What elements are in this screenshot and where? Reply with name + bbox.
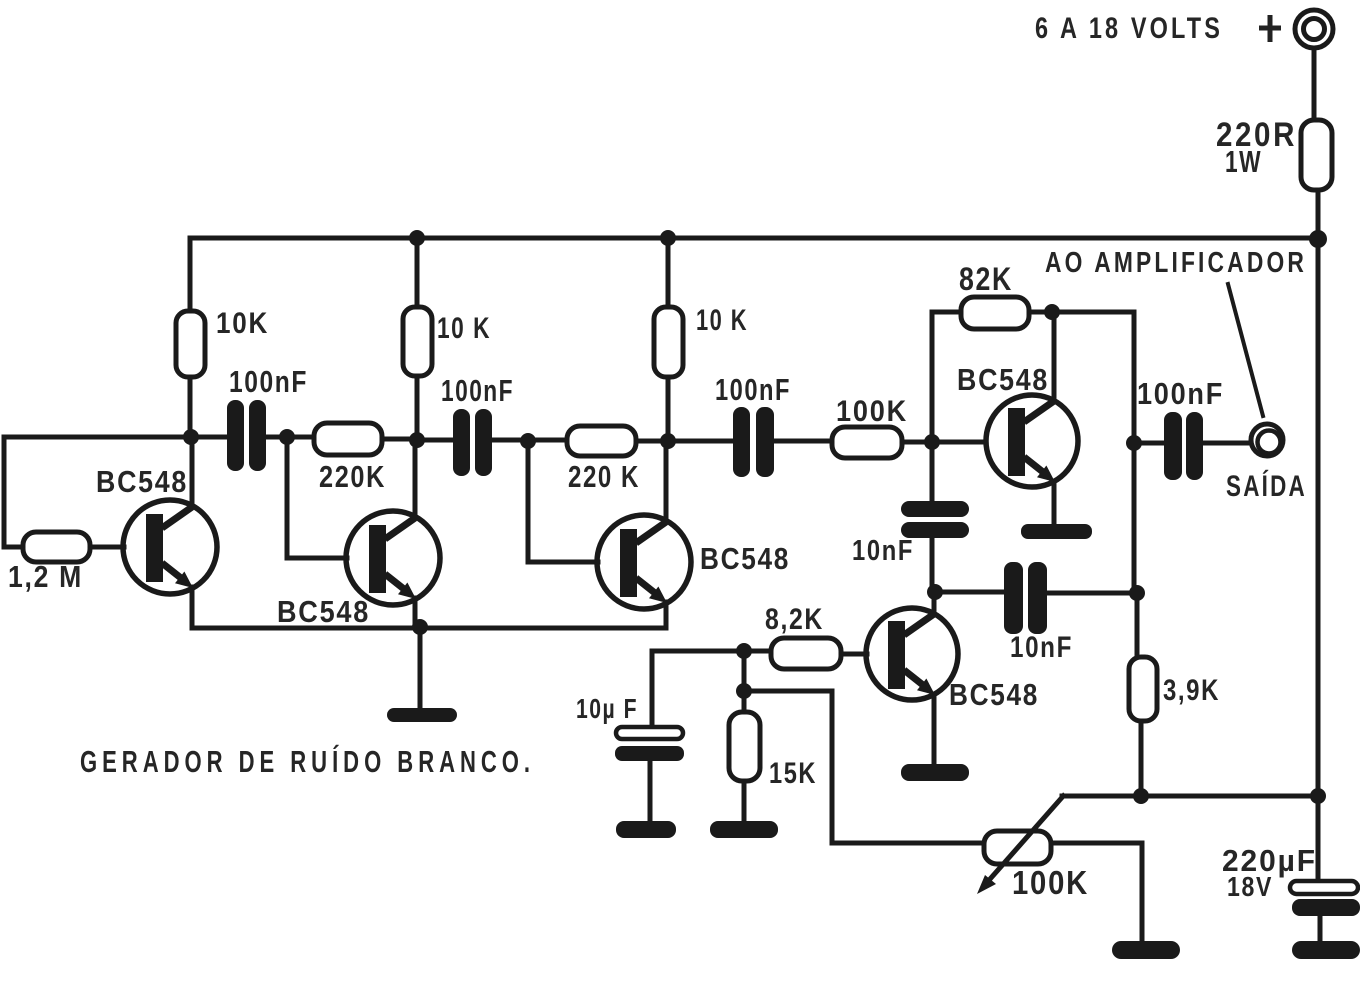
svg-text:BC548: BC548: [96, 464, 188, 499]
svg-text:GERADOR DE RUÍDO BRANCO.: GERADOR DE RUÍDO BRANCO.: [80, 744, 535, 779]
svg-text:10nF: 10nF: [852, 535, 914, 567]
svg-text:100K: 100K: [1012, 864, 1089, 901]
svg-text:100nF: 100nF: [1137, 376, 1224, 411]
svg-text:18V: 18V: [1227, 871, 1273, 902]
svg-text:BC548: BC548: [957, 362, 1049, 397]
svg-text:3,9K: 3,9K: [1163, 674, 1220, 707]
svg-text:100nF: 100nF: [715, 372, 791, 407]
svg-text:100nF: 100nF: [441, 373, 514, 408]
svg-text:100K: 100K: [836, 395, 908, 428]
svg-text:10µ F: 10µ F: [576, 693, 638, 724]
svg-text:SAÍDA: SAÍDA: [1226, 469, 1307, 503]
svg-text:1W: 1W: [1225, 144, 1262, 179]
svg-text:15K: 15K: [769, 757, 817, 790]
svg-text:220K: 220K: [319, 459, 386, 494]
svg-text:100nF: 100nF: [229, 364, 308, 399]
svg-text:10 K: 10 K: [437, 312, 491, 345]
svg-text:BC548: BC548: [277, 594, 370, 629]
svg-text:8,2K: 8,2K: [765, 603, 824, 636]
svg-text:BC548: BC548: [700, 541, 790, 576]
svg-text:220 K: 220 K: [568, 459, 640, 494]
svg-text:AO AMPLIFICADOR: AO AMPLIFICADOR: [1045, 247, 1307, 279]
svg-text:6 A 18 VOLTS: 6 A 18 VOLTS: [1035, 12, 1223, 45]
svg-text:10K: 10K: [216, 307, 269, 340]
svg-text:1,2 M: 1,2 M: [8, 559, 83, 594]
svg-text:BC548: BC548: [949, 677, 1039, 712]
svg-text:10 K: 10 K: [696, 304, 748, 337]
svg-text:10nF: 10nF: [1010, 631, 1073, 664]
svg-text:82K: 82K: [959, 261, 1013, 297]
